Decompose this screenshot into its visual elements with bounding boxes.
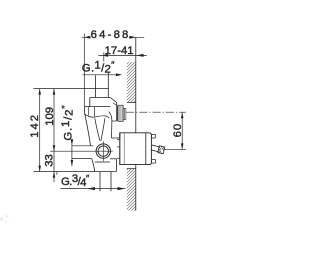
dimension 142 line (39, 89, 41, 172)
dimension 17-41 left extension line (103, 53, 105, 62)
box rear detail line top (117, 138, 120, 140)
valve stem (151, 144, 165, 154)
thermostat cartridge backplate (116, 106, 118, 121)
side port stub bottom line (72, 158, 92, 160)
dimension 109 top arrow (53, 89, 56, 95)
svg-text:33: 33 (44, 154, 56, 167)
svg-text:60: 60 (172, 123, 184, 138)
svg-text:109: 109 (44, 107, 56, 126)
top inlet pipe (96, 73, 109, 98)
main body right edge (112, 103, 120, 138)
body chamfer above cartridge (113, 103, 117, 105)
valve bottom ledge / extension line (33, 171, 116, 173)
label G3/4 leader arrow left (88, 187, 96, 190)
body funnel left line (95, 118, 100, 141)
label G3/4 leader arrow right (118, 187, 126, 190)
box screw top right (151, 134, 155, 138)
bottom outlet pipe left edge (99, 172, 101, 192)
wall face line lower segment (135, 165, 137, 211)
side port dimension line vertical (71, 139, 73, 166)
svg-text:G.3/4″: G.3/4″ (61, 173, 90, 189)
dimension 60 top arrow (181, 112, 184, 118)
dimension 142 bottom arrow (38, 166, 41, 172)
dimension 60 line (181, 112, 183, 149)
thermostat cartridge ridged body (118, 105, 123, 121)
main body left edge (85, 107, 91, 146)
dimension 33 line (53, 151, 55, 182)
bottom outlet pipe right edge (110, 172, 112, 192)
dimension 64-88 left arrow (84, 36, 90, 39)
front port inner circle (98, 146, 108, 156)
main body center vertical right (93, 107, 95, 117)
side port dimension arrow upper (71, 139, 74, 145)
label G3/4 leader line (60, 188, 125, 190)
box rear detail line lower (117, 157, 120, 159)
svg-text:G.1/2″: G.1/2″ (60, 105, 76, 141)
stem axis reference line (164, 148, 186, 150)
body step at cartridge bottom (112, 120, 117, 122)
side port stub top line (72, 145, 94, 147)
dimension 17-41 left arrow (102, 54, 108, 57)
front port crosshair vertical (102, 141, 104, 161)
dimension 17-41 line (98, 54, 146, 56)
svg-text:142: 142 (29, 113, 41, 138)
svg-text:G.1/2″: G.1/2″ (82, 59, 115, 75)
svg-text:64-88: 64-88 (91, 29, 131, 41)
label G1/2 top leader arrow (116, 73, 122, 76)
dimension 109 line (53, 89, 55, 152)
label G1/2 top leader line (83, 74, 120, 76)
dimension 64-88 right arrow (129, 36, 136, 39)
front port outer circle (96, 144, 110, 158)
collar right step top (110, 158, 117, 160)
dimension 17-41 right arrow (136, 54, 143, 57)
bottom lip tick (56, 172, 58, 175)
box screw bottom right (151, 160, 155, 164)
volume control box left edge line (119, 133, 121, 165)
body right inner contour (109, 112, 112, 138)
main body center vertical left (88, 107, 90, 116)
faint printing artifact bottom-left (0, 215, 9, 223)
left extension line port axis (50, 150, 113, 152)
body edge below side port (92, 159, 95, 172)
dimension 109 bottom arrow (53, 145, 56, 151)
wall hatch bottom band (118, 146, 142, 239)
wall hatch top cap line (127, 102, 136, 104)
dimension 60 bottom arrow (181, 143, 184, 149)
dimension 64-88 left extension line (83, 34, 85, 107)
thermostat cartridge end cap (123, 108, 126, 119)
dimension 64-88 line (82, 36, 144, 38)
box rear detail line upper (117, 146, 120, 148)
volume control box inner left line (123, 133, 125, 165)
collar right step edge (116, 159, 118, 172)
left extension line top (33, 88, 108, 90)
dimension 142 top arrow (38, 89, 41, 95)
hex nut section (85, 98, 117, 107)
main body casting contour wavy line (85, 114, 110, 118)
volume control box inner cap line (145, 133, 147, 165)
wall hatch bottom cap line (127, 168, 136, 170)
svg-text:17-41: 17-41 (105, 45, 134, 57)
thermostat axis dash-dot centerline (126, 111, 186, 113)
dimension 33 outside arrow below (53, 172, 56, 178)
collar top edge under port (95, 161, 110, 163)
side port dimension arrow lower (71, 160, 74, 166)
volume control box body (120, 133, 152, 165)
wall face line upper segment (135, 37, 137, 133)
wall hatch top band (118, 40, 142, 130)
body funnel right line (101, 118, 105, 141)
